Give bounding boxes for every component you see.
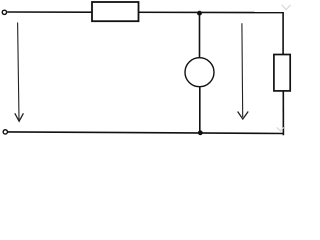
arrow V2 (middle-right, downward) — [238, 23, 249, 119]
terminal top-left — [2, 10, 6, 14]
terminal bottom-left — [3, 130, 7, 134]
resistor R2 (vertical, right branch) — [274, 55, 290, 91]
arrow V1 (left, downward) — [15, 23, 24, 122]
node B (bottom junction dot) — [198, 130, 203, 135]
wire bottom (left terminal to right corner) — [8, 132, 284, 134]
faint artifact mark bottom-right — [277, 127, 284, 130]
source U1 (circle, middle branch) — [185, 58, 214, 87]
wire middle branch upper — [199, 13, 201, 59]
node A (top junction dot) — [197, 11, 202, 16]
resistor R1 (horizontal, top wire) — [92, 2, 139, 21]
wire right branch upper — [282, 12, 284, 56]
wire right branch lower — [282, 91, 284, 136]
wire top (left terminal to right corner) — [7, 11, 283, 14]
wire middle branch lower — [199, 87, 201, 134]
faint artifact mark top-right — [282, 5, 291, 10]
